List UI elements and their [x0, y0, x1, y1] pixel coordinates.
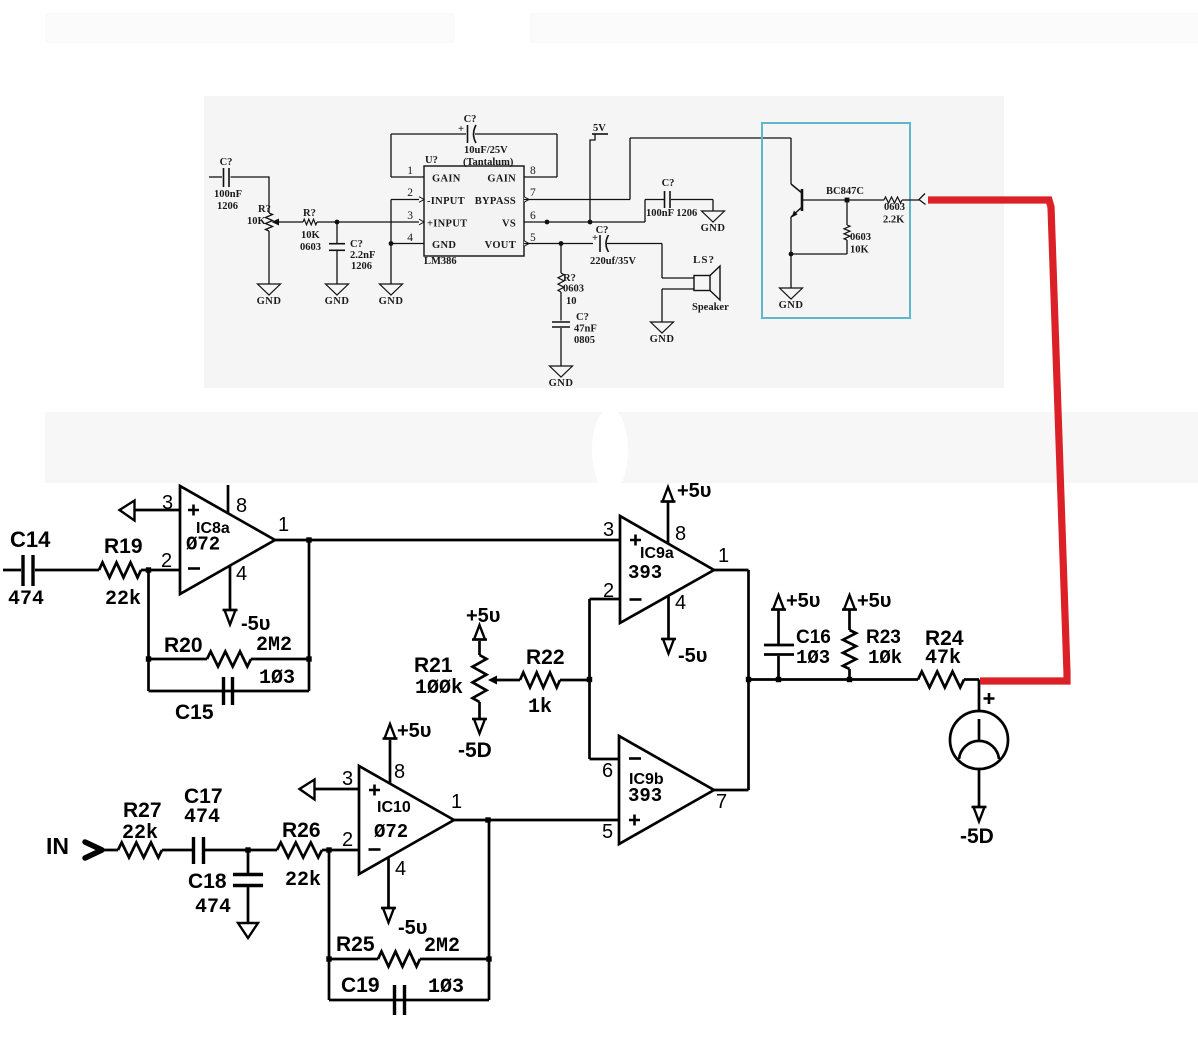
- svg-text:10: 10: [566, 296, 577, 307]
- svg-text:1Øk: 1Øk: [868, 647, 902, 669]
- wire: [317, 221, 424, 223]
- op-amp IC8a 072: [180, 486, 275, 594]
- svg-text:IC9a: IC9a: [640, 545, 674, 562]
- pin 2 marker: [419, 197, 424, 203]
- svg-text:R23: R23: [866, 627, 901, 648]
- wire pin6: [524, 221, 645, 223]
- svg-text:2M2: 2M2: [424, 935, 460, 958]
- svg-text:1Ø3: 1Ø3: [796, 647, 830, 669]
- svg-text:1: 1: [451, 791, 462, 813]
- svg-text:10uF/25V: 10uF/25V: [464, 145, 508, 156]
- resistor R? 0603 2.2K: [884, 197, 902, 203]
- svg-text:4: 4: [407, 232, 413, 244]
- svg-text:6: 6: [530, 210, 536, 222]
- svg-text:8: 8: [394, 761, 405, 783]
- ground: [702, 211, 725, 222]
- node: [587, 677, 592, 682]
- capacitor C? 47nF 0805: [552, 321, 570, 323]
- capacitor C? 2.2nF 1206: [336, 222, 338, 243]
- capacitor C18 474: [247, 850, 250, 873]
- pin 4 arrow: [225, 610, 236, 625]
- node: [845, 198, 850, 203]
- svg-text:R19: R19: [104, 535, 143, 558]
- svg-text:R?: R?: [258, 204, 271, 215]
- resistor R26 22k: [277, 843, 322, 858]
- potentiometer R21 100k: [474, 625, 485, 640]
- svg-text:1Ø3: 1Ø3: [428, 976, 464, 999]
- capacitor C16 103: [777, 656, 780, 680]
- op-amp U? LM386: [424, 166, 524, 256]
- svg-text:R20: R20: [164, 634, 203, 657]
- op-amp IC10 072: [359, 766, 454, 874]
- wire: [278, 221, 303, 223]
- svg-text:LS?: LS?: [693, 254, 715, 266]
- svg-text:2: 2: [407, 187, 413, 199]
- svg-text:GAIN: GAIN: [432, 174, 461, 185]
- svg-text:474: 474: [184, 806, 220, 829]
- pin 1 wire: [454, 819, 619, 822]
- svg-text:10K: 10K: [850, 245, 870, 256]
- wire: [308, 540, 311, 691]
- svg-text:47nF: 47nF: [574, 324, 597, 335]
- resistor R22 1k: [520, 673, 560, 688]
- pin 3 marker: [419, 219, 424, 225]
- resistor R25 2M2: [329, 958, 378, 961]
- wire: [791, 253, 847, 255]
- resistor R20 2M2: [149, 658, 208, 661]
- svg-text:GND: GND: [379, 296, 404, 307]
- svg-text:BYPASS: BYPASS: [475, 196, 516, 207]
- ground: [780, 288, 803, 299]
- pin 4 arrow: [383, 908, 394, 923]
- pin 7 wire: [714, 789, 749, 792]
- svg-text:-5D: -5D: [960, 825, 994, 848]
- svg-text:-5D: -5D: [458, 739, 492, 762]
- node: [789, 252, 794, 257]
- node: [847, 677, 852, 682]
- svg-text:8: 8: [236, 495, 247, 517]
- svg-text:22k: 22k: [285, 869, 321, 892]
- node: [588, 220, 593, 225]
- wire: [978, 680, 981, 712]
- wire base: [802, 199, 884, 201]
- capacitor C14 474: [3, 569, 21, 572]
- svg-text:220uf/35V: 220uf/35V: [590, 256, 637, 267]
- pin 3 wire: [314, 788, 359, 791]
- svg-text:1Ø3: 1Ø3: [259, 667, 295, 690]
- wire pin2 to gnd: [391, 199, 424, 201]
- svg-text:-5υ: -5υ: [678, 645, 707, 667]
- node: [245, 847, 250, 852]
- resistor R? 0603 10K: [846, 200, 848, 225]
- svg-text:GND: GND: [257, 296, 282, 307]
- svg-text:100nF 1206: 100nF 1206: [646, 208, 697, 219]
- pin 4 wire: [229, 566, 232, 610]
- wire: [328, 850, 331, 1000]
- svg-text:2: 2: [342, 829, 353, 851]
- svg-text:2: 2: [161, 550, 172, 572]
- capacitor C17 474: [192, 837, 195, 864]
- node: [146, 656, 151, 661]
- node: [746, 677, 751, 682]
- svg-text:6: 6: [602, 760, 613, 782]
- svg-text:C19: C19: [341, 974, 380, 997]
- wire: [149, 690, 310, 693]
- wire pin1 feedback: [391, 176, 424, 178]
- svg-text:3: 3: [342, 768, 353, 790]
- svg-text:C?: C?: [220, 157, 233, 168]
- capacitor C? 10uF/25V tantalum: [467, 125, 469, 143]
- svg-text:+5υ: +5υ: [786, 590, 820, 612]
- svg-text:1k: 1k: [528, 696, 552, 719]
- svg-text:Ø72: Ø72: [374, 821, 408, 843]
- ground: [326, 284, 349, 295]
- ground: [380, 284, 403, 295]
- node: [545, 220, 550, 225]
- node: [485, 817, 490, 822]
- wire: [488, 820, 491, 1000]
- speaker LS?: [694, 276, 710, 291]
- middle pale band: [45, 412, 1198, 483]
- top pale band: [45, 13, 1198, 43]
- transducer X1: [950, 711, 1008, 769]
- wire: [978, 769, 981, 807]
- svg-text:C?: C?: [350, 239, 363, 250]
- pin 8 arrow: [663, 487, 674, 502]
- svg-text:1ØØk: 1ØØk: [415, 677, 463, 700]
- capacitor C? 100nF 1206 bypass: [644, 200, 646, 223]
- pin 8 wire: [667, 501, 670, 544]
- svg-text:GND: GND: [779, 300, 804, 311]
- svg-text:R22: R22: [526, 646, 565, 669]
- svg-text:Speaker: Speaker: [692, 302, 729, 313]
- wire: [268, 176, 270, 213]
- svg-text:GND: GND: [432, 240, 456, 251]
- node: [306, 656, 311, 661]
- arrow -5D: [974, 807, 985, 822]
- potentiometer R? 10K: [266, 213, 273, 231]
- ground: [258, 284, 281, 295]
- svg-text:5: 5: [602, 821, 613, 843]
- wire rail: [749, 678, 919, 681]
- svg-text:C?: C?: [662, 178, 675, 189]
- port arrow: [919, 194, 926, 205]
- port arrow: [120, 501, 135, 521]
- ground: [651, 322, 674, 333]
- svg-text:-INPUT: -INPUT: [427, 196, 465, 207]
- pin 3 wire: [134, 509, 180, 512]
- node: [326, 847, 331, 852]
- svg-text:22k: 22k: [105, 588, 141, 611]
- pin 8 arrow: [385, 724, 396, 739]
- pin 4 wire: [387, 857, 390, 908]
- svg-text:R25: R25: [336, 933, 375, 956]
- svg-text:8: 8: [675, 523, 686, 545]
- svg-text:GND: GND: [701, 223, 726, 234]
- op-amp IC9b 393: [619, 736, 714, 844]
- svg-text:GND: GND: [325, 296, 350, 307]
- wiper arrow: [488, 676, 497, 685]
- svg-text:C16: C16: [796, 627, 831, 648]
- svg-text:C?: C?: [464, 114, 477, 125]
- svg-text:0603: 0603: [884, 202, 905, 213]
- svg-text:2: 2: [603, 580, 614, 602]
- svg-text:C15: C15: [175, 701, 214, 724]
- svg-text:+: +: [458, 124, 464, 135]
- svg-text:C?: C?: [576, 312, 589, 323]
- resistor R23 10k: [848, 609, 851, 630]
- svg-text:474: 474: [195, 896, 231, 919]
- svg-text:+INPUT: +INPUT: [427, 219, 467, 230]
- svg-text:C14: C14: [10, 527, 51, 552]
- highlight box: [762, 123, 910, 318]
- port arrow: [300, 780, 315, 800]
- pin 6 wire: [590, 758, 620, 761]
- svg-text:BC847C: BC847C: [826, 186, 864, 197]
- resistor R19 22k: [99, 563, 141, 578]
- svg-text:1: 1: [718, 545, 729, 567]
- red wire: [928, 200, 1067, 681]
- white smudge in band: [592, 408, 628, 492]
- wire pin7: [524, 199, 630, 201]
- svg-text:U?: U?: [425, 155, 438, 166]
- svg-text:(Tantalum): (Tantalum): [463, 157, 514, 168]
- wire: [662, 288, 694, 290]
- svg-text:0805: 0805: [574, 335, 595, 346]
- svg-text:5V: 5V: [593, 123, 606, 134]
- pin 1 wire: [714, 569, 749, 572]
- svg-text:2.2nF: 2.2nF: [350, 250, 375, 261]
- svg-text:VS: VS: [502, 219, 516, 230]
- wire pin5: [524, 243, 593, 245]
- svg-text:474: 474: [8, 588, 44, 611]
- node: [486, 956, 491, 961]
- svg-text:1: 1: [278, 514, 289, 536]
- svg-text:R26: R26: [282, 819, 321, 842]
- wire: [147, 570, 150, 691]
- svg-text:0603: 0603: [563, 284, 584, 295]
- transistor Q? BC847C: [790, 138, 792, 184]
- plus sign: [984, 693, 995, 704]
- svg-text:R21: R21: [414, 654, 453, 677]
- svg-text:1: 1: [407, 165, 413, 177]
- svg-text:0603: 0603: [300, 242, 321, 253]
- ground: [238, 923, 258, 938]
- svg-text:C17: C17: [184, 785, 223, 808]
- svg-text:C18: C18: [188, 870, 227, 893]
- node: [335, 220, 340, 225]
- pin 5 marker: [524, 241, 529, 247]
- svg-text:2.2K: 2.2K: [883, 215, 905, 226]
- svg-text:+5υ: +5υ: [397, 720, 431, 742]
- node: [306, 537, 311, 542]
- svg-text:3: 3: [407, 210, 413, 222]
- svg-text:22k: 22k: [122, 822, 158, 845]
- capacitor C? 100nF 1206: [209, 176, 222, 178]
- svg-text:IC10: IC10: [377, 799, 411, 816]
- wire: [100, 849, 118, 852]
- op-amp IC9a 393: [620, 516, 714, 623]
- svg-text:100nF: 100nF: [214, 189, 242, 200]
- svg-text:4: 4: [236, 563, 247, 585]
- svg-text:1206: 1206: [217, 201, 238, 212]
- svg-text:393: 393: [628, 562, 662, 584]
- resistor R27 22k: [118, 843, 162, 858]
- svg-text:R?: R?: [303, 208, 316, 219]
- svg-text:GND: GND: [650, 334, 675, 345]
- svg-text:GAIN: GAIN: [487, 174, 516, 185]
- svg-text:3: 3: [162, 492, 173, 514]
- node: [146, 567, 151, 572]
- svg-text:Ø72: Ø72: [186, 534, 220, 556]
- node: [389, 241, 394, 246]
- resistor R? 0603 10: [560, 244, 562, 274]
- capacitor C15 103: [222, 677, 225, 705]
- svg-text:7: 7: [716, 791, 727, 813]
- svg-text:10K: 10K: [247, 216, 267, 227]
- pin 8 wire: [227, 485, 230, 514]
- svg-text:47k: 47k: [925, 647, 961, 670]
- scanned schematic background: [204, 96, 1004, 388]
- svg-text:IN: IN: [46, 833, 69, 859]
- resistor R? 10K 0603: [303, 219, 317, 225]
- pin 4 wire: [667, 596, 670, 639]
- svg-text:+5υ: +5υ: [466, 605, 500, 627]
- pin 7 marker: [524, 197, 529, 203]
- svg-text:4: 4: [395, 858, 406, 880]
- svg-text:R?: R?: [563, 273, 576, 284]
- svg-text:5: 5: [530, 232, 536, 244]
- svg-text:+5υ: +5υ: [677, 480, 711, 502]
- svg-text:3: 3: [603, 519, 614, 541]
- svg-text:+5υ: +5υ: [857, 590, 891, 612]
- svg-text:GND: GND: [549, 378, 574, 389]
- wire: [475, 133, 557, 135]
- capacitor C19 103: [393, 985, 396, 1015]
- svg-text:2M2: 2M2: [256, 634, 292, 657]
- ground: [550, 366, 573, 377]
- svg-text:4: 4: [675, 592, 686, 614]
- pin 4 arrow: [663, 639, 674, 654]
- node: [326, 956, 331, 961]
- wire: [790, 254, 792, 288]
- svg-text:0603: 0603: [850, 232, 871, 243]
- pin 8 wire: [389, 740, 392, 784]
- svg-text:VOUT: VOUT: [485, 240, 516, 251]
- svg-text:7: 7: [530, 187, 536, 199]
- svg-text:8: 8: [530, 165, 536, 177]
- svg-text:10K: 10K: [301, 230, 321, 241]
- svg-text:393: 393: [628, 785, 662, 807]
- svg-text:-5υ: -5υ: [241, 613, 270, 635]
- svg-text:LM386: LM386: [424, 256, 457, 267]
- pin 1 wire: [275, 539, 620, 542]
- wire: [661, 244, 663, 279]
- pin 2 wire: [590, 598, 621, 601]
- wire: [329, 999, 489, 1002]
- resistor R24 47k: [918, 672, 964, 688]
- node: [559, 241, 564, 246]
- svg-text:R27: R27: [123, 799, 162, 822]
- svg-text:C?: C?: [596, 225, 609, 236]
- svg-text:1206: 1206: [351, 261, 372, 272]
- node: [776, 677, 781, 682]
